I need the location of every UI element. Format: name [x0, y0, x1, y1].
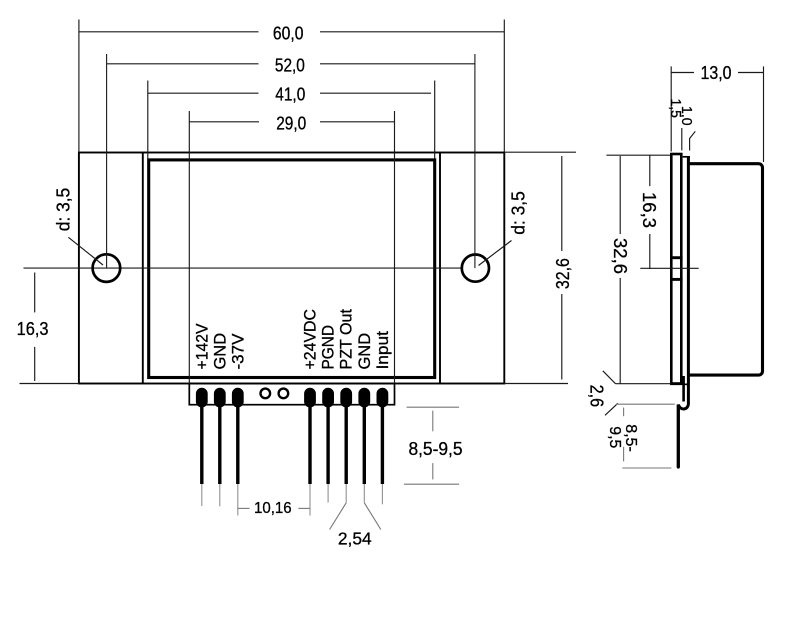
- extension line 52,0 right (through hole): [474, 54, 476, 268]
- side body outline: [688, 164, 762, 375]
- flange bottom ref ext left: [20, 383, 79, 385]
- flange plate outline: [79, 153, 504, 384]
- pin 6 lead: [345, 405, 348, 484]
- svg-text:1,0: 1,0: [678, 106, 695, 126]
- leader 1,0: [690, 131, 696, 150]
- side pin lead: [677, 404, 680, 467]
- dim 10,16 line: [238, 507, 250, 509]
- left mounting hole: [93, 254, 121, 282]
- leader d:3,5 left: [68, 237, 103, 265]
- svg-text:PZT Out: PZT Out: [337, 309, 356, 370]
- dim 29,0 ext left: [188, 111, 190, 384]
- dim 29,0 ext right: [394, 111, 396, 384]
- svg-text:d: 3,5: d: 3,5: [507, 191, 528, 235]
- side centerline: [640, 267, 698, 269]
- side pcb step top: [683, 156, 690, 158]
- svg-text:32,6: 32,6: [552, 258, 573, 289]
- dimension texts front: [17, 23, 573, 459]
- flange top ref ext right: [504, 151, 576, 153]
- svg-text:52,0: 52,0: [275, 54, 305, 75]
- svg-text:29,0: 29,0: [276, 113, 306, 134]
- dim 2,6 slash bottom: [605, 403, 618, 415]
- leader 2,54 pin6: [330, 503, 347, 530]
- svg-text:+142V: +142V: [192, 323, 211, 370]
- svg-text:-37V: -37V: [228, 333, 247, 370]
- dim 8,5-9,5 front: [238, 407, 459, 529]
- svg-text:Input: Input: [373, 331, 392, 370]
- svg-text:16,3: 16,3: [639, 192, 659, 228]
- dim 2,6 ref top: [616, 383, 672, 385]
- pin header block: [189, 384, 394, 405]
- pin capsules and pins: [196, 388, 388, 408]
- dim 60,0 ext right: [503, 20, 505, 153]
- svg-text:32,6: 32,6: [610, 238, 630, 274]
- hole centerline: [24, 267, 463, 269]
- dim 29,0 line: [189, 121, 259, 123]
- dim 60,0 line: [79, 31, 259, 33]
- svg-text:60,0: 60,0: [273, 23, 304, 44]
- side pcb bottom: [670, 383, 687, 385]
- header guide holes: [261, 389, 271, 399]
- pin 1 lead: [200, 405, 203, 484]
- dim 16,3 left line: [34, 273, 36, 313]
- pin 1 capsule: [196, 388, 208, 408]
- side header strip left: [682, 376, 685, 402]
- svg-text:16,3: 16,3: [17, 318, 49, 339]
- side top ref ext: [606, 154, 670, 156]
- extension line 52,0 left (through hole): [106, 54, 108, 268]
- pin 7 capsule: [358, 388, 370, 408]
- dim 16,3 side line: [649, 155, 651, 186]
- svg-text:+24VDC: +24VDC: [301, 309, 320, 370]
- pin 2 capsule: [214, 388, 226, 408]
- side flange plate: [671, 154, 681, 384]
- dim 8,5-9,5 side line: [623, 408, 625, 417]
- dimension texts side: [586, 63, 731, 407]
- pin labels: [192, 309, 392, 370]
- flange bottom ref ext right: [504, 383, 568, 385]
- svg-text:10,16: 10,16: [254, 500, 292, 517]
- svg-text:GND: GND: [355, 333, 374, 370]
- dim 32,6 side line: [619, 156, 621, 234]
- pin 4 lead: [308, 405, 311, 484]
- dim 2,6 slash top: [603, 371, 616, 384]
- pin 3 lead: [236, 405, 239, 484]
- dim 41,0 line: [148, 92, 259, 94]
- pin 6 capsule: [340, 388, 352, 408]
- dim 41,0 ext left: [147, 81, 149, 159]
- svg-text:13,0: 13,0: [701, 63, 732, 83]
- svg-text:2,54: 2,54: [338, 529, 372, 549]
- pin 5 lead: [326, 405, 329, 484]
- svg-text:8,5-: 8,5-: [622, 424, 639, 452]
- dim 13,0 ext right: [763, 66, 765, 162]
- side ref pin top: [616, 403, 675, 405]
- leader d:3,5 right: [479, 241, 512, 266]
- dim 41,0 ext right: [434, 81, 436, 159]
- text 8,5-9,5 side (rotated two lines): [606, 424, 639, 452]
- svg-text:PGND: PGND: [319, 325, 338, 370]
- svg-text:41,0: 41,0: [275, 84, 305, 105]
- dim 13,0 ext left: [670, 66, 672, 151]
- pin 2 lead: [218, 405, 221, 484]
- side ref pin tip: [622, 467, 671, 469]
- body outer left edge: [142, 153, 144, 384]
- pin 4 capsule: [304, 388, 316, 408]
- svg-text:2,6: 2,6: [586, 385, 606, 408]
- dim 13,0 line: [671, 72, 694, 74]
- dim 32,6 front line: [561, 156, 563, 251]
- side body front face: [679, 157, 689, 409]
- svg-text:8,5-9,5: 8,5-9,5: [408, 438, 462, 459]
- svg-text:GND: GND: [210, 333, 229, 370]
- right mounting hole: [462, 255, 489, 282]
- pin 5 capsule: [322, 388, 334, 408]
- leader 1,5: [681, 128, 683, 150]
- pin 8 lead: [381, 405, 384, 484]
- dim 60,0 ext left: [78, 20, 80, 153]
- leader 2,54 pin7: [364, 503, 381, 530]
- pin 3 capsule: [232, 388, 244, 408]
- svg-text:9,5: 9,5: [606, 426, 623, 448]
- body inner thick outline: [149, 160, 435, 378]
- body outer right edge: [439, 153, 441, 384]
- pin 7 lead: [363, 405, 366, 484]
- pin 8 capsule: [377, 388, 389, 408]
- pin tip extension hairlines: [202, 484, 383, 516]
- dim 52,0 line: [107, 63, 259, 65]
- side hole upper edge: [670, 256, 683, 259]
- svg-text:d: 3,5: d: 3,5: [53, 188, 74, 232]
- side hole lower edge: [670, 278, 683, 281]
